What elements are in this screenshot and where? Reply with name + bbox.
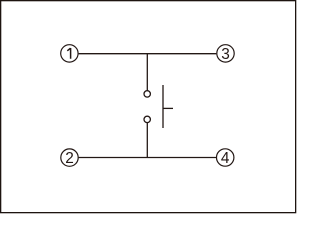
wire: lower contact down to bottom junction xyxy=(146,123,148,158)
switch S1 actuator bar xyxy=(162,85,164,128)
switch S1 actuator tick xyxy=(163,107,173,109)
switch S1 upper fixed contact xyxy=(144,91,150,97)
wire: top junction down to upper contact xyxy=(146,54,148,91)
svg-text:2: 2 xyxy=(65,150,74,167)
svg-text:3: 3 xyxy=(221,46,230,63)
pin 2 xyxy=(61,149,78,167)
wire: pin1 to pin3 (top) xyxy=(79,53,217,55)
pin 4 xyxy=(217,149,234,167)
switch S1 lower fixed contact xyxy=(144,116,150,122)
wire: pin2 to pin4 (bottom) xyxy=(79,157,217,159)
pin 1 xyxy=(61,45,78,62)
pin 3 xyxy=(217,45,234,63)
svg-text:4: 4 xyxy=(221,150,230,167)
